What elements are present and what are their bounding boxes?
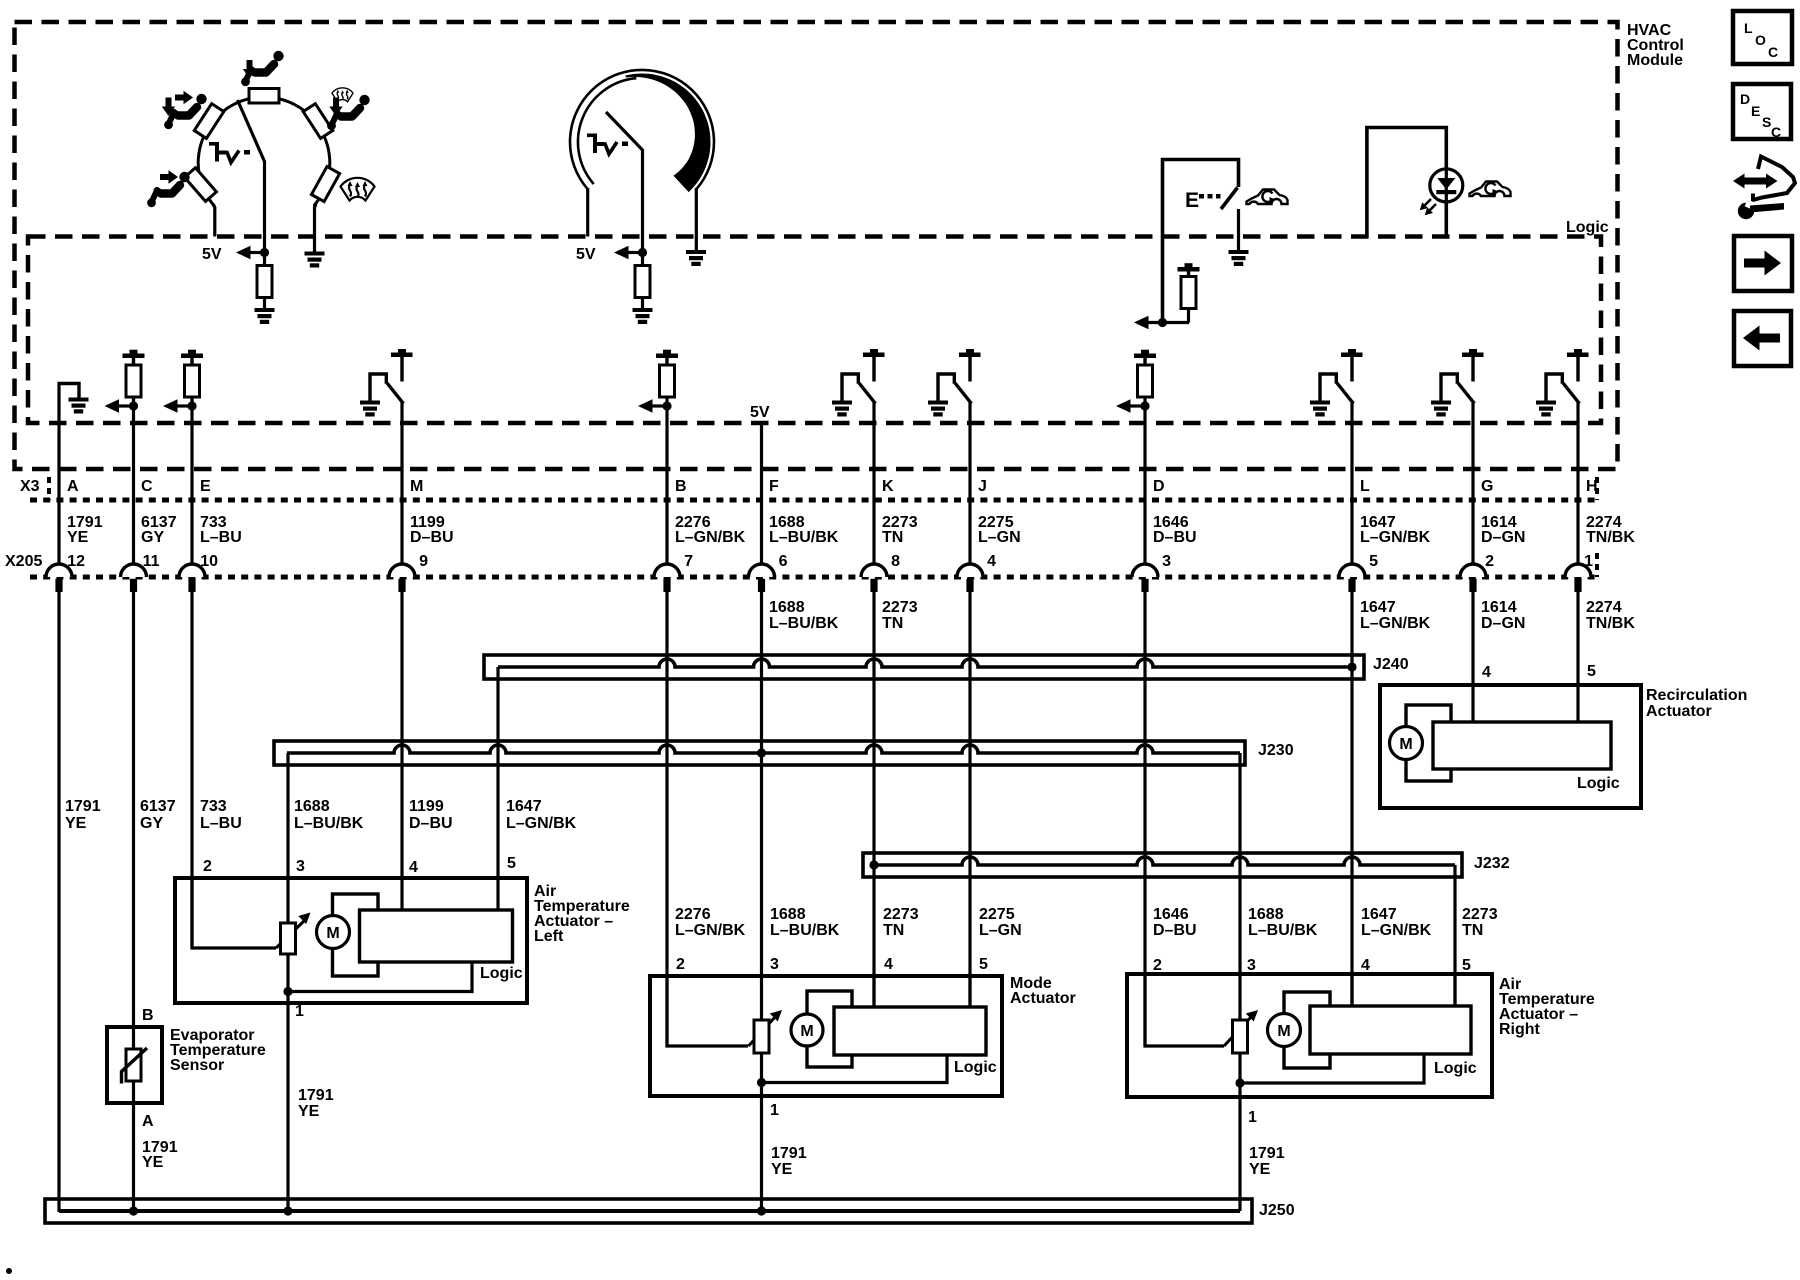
X205 connector bump pin 1 [1565, 564, 1591, 592]
splice bus J250 [45, 1199, 1252, 1223]
wire B 2276 L-GN/BK lower [665, 591, 668, 1046]
wire D 1646 D-BU lower [1143, 591, 1146, 1046]
X205 connector bump pin 12 [46, 564, 72, 592]
svg-text:1646: 1646 [1153, 906, 1189, 923]
wire 1647 branch from J240 to left actuator pin 5 [496, 667, 499, 911]
right actuator pot resistor [1233, 1020, 1248, 1053]
wire L 1647 L-GN/BK lower [1350, 591, 1353, 667]
svg-text:J240: J240 [1373, 656, 1409, 673]
svg-text:YE: YE [142, 1154, 164, 1171]
ground at wire A hook [69, 398, 89, 414]
svg-text:L–GN/BK: L–GN/BK [506, 815, 577, 832]
svg-text:2276: 2276 [675, 906, 711, 923]
svg-text:D: D [1740, 91, 1750, 107]
wire 1688 branch from J230 to right actuator pin 3 [1238, 753, 1241, 1021]
svg-text:2: 2 [1153, 957, 1162, 974]
svg-text:E: E [200, 478, 211, 495]
svg-text:C: C [141, 478, 153, 495]
left actuator 1791 YE label [298, 1087, 334, 1120]
svg-text:YE: YE [298, 1103, 320, 1120]
mode selector resistor lower-left [184, 168, 216, 202]
svg-text:11: 11 [143, 553, 160, 570]
svg-text:9: 9 [419, 553, 428, 570]
svg-text:D–BU: D–BU [409, 815, 453, 832]
wire H 2274 TN/BK [1576, 591, 1579, 724]
evap sensor thermistor [122, 1048, 148, 1084]
recirculation actuator pin labels [1482, 663, 1596, 681]
svg-text:TN: TN [883, 922, 904, 939]
mode selector resistor lower-right [311, 167, 339, 202]
mode icon defrost lower-right [341, 178, 375, 201]
mode actuator pot wiper arrow [749, 1010, 783, 1046]
svg-text:L–BU/BK: L–BU/BK [769, 529, 839, 546]
routing arrow and wrench icon [1733, 157, 1795, 220]
mode actuator pin1 junction dot [757, 1078, 766, 1087]
svg-text:TN/BK: TN/BK [1586, 529, 1635, 546]
connector X205 line [30, 553, 1597, 577]
recirculation actuator motor M [1390, 727, 1423, 760]
left actuator pot resistor [281, 923, 296, 954]
svg-text:1647: 1647 [1360, 599, 1396, 616]
svg-text:B: B [675, 478, 687, 495]
mode selector resistor top [249, 89, 279, 104]
wire 2273 branch from J232 to right actuator pin 5 [1453, 865, 1456, 1008]
svg-text:L–BU: L–BU [200, 529, 242, 546]
mode actuator 1791 YE label [771, 1145, 807, 1178]
svg-text:L–BU/BK: L–BU/BK [770, 922, 840, 939]
icon box right arrow [1734, 236, 1792, 291]
switch at wire K [832, 349, 885, 417]
wire labels below X205 [769, 599, 1635, 632]
right actuator logic to pin1 wire [1240, 1054, 1424, 1083]
svg-text:L–GN/BK: L–GN/BK [675, 529, 746, 546]
svg-text:2275: 2275 [979, 906, 1015, 923]
X205 connector bump pin 2 [1460, 564, 1486, 592]
svg-text:2273: 2273 [882, 599, 918, 616]
right actuator wire labels [1153, 906, 1498, 939]
right actuator pin5 internal wire [1453, 974, 1456, 1006]
right actuator pin2 internal wire [1145, 974, 1224, 1046]
mode icon person left with right arrow [147, 170, 190, 207]
svg-text:2: 2 [676, 956, 685, 973]
svg-text:2273: 2273 [1462, 906, 1498, 923]
svg-text:5: 5 [507, 855, 516, 872]
svg-text:2: 2 [1485, 553, 1494, 570]
svg-text:4: 4 [409, 859, 418, 876]
X205 connector bump pin 10 [179, 564, 205, 592]
temperature wiper resistor [635, 253, 650, 309]
right actuator pin4 internal wire [1350, 974, 1353, 1006]
wire C 6137 GY lower [132, 591, 135, 1049]
svg-text:S: S [1762, 114, 1771, 130]
svg-text:L: L [1744, 20, 1753, 36]
icon box LOC [1733, 11, 1792, 64]
svg-text:TN: TN [882, 615, 903, 632]
mode actuator logic to pin1 wire [762, 1055, 948, 1083]
mode actuator pin labels [676, 956, 988, 1119]
svg-text:8: 8 [891, 553, 900, 570]
svg-text:D–BU: D–BU [1153, 922, 1197, 939]
left actuator pot wiper arrow [276, 913, 311, 949]
temperature wiper junction dot [638, 248, 647, 257]
svg-text:1791: 1791 [298, 1087, 334, 1104]
connector X3 line [30, 477, 1597, 500]
wire J 2275 L-GN lower [968, 591, 971, 1008]
svg-text:TN: TN [882, 529, 903, 546]
svg-text:1791: 1791 [65, 798, 101, 815]
svg-text:YE: YE [65, 815, 87, 832]
mode actuator motor bracket [807, 991, 852, 1067]
svg-text:1688: 1688 [770, 906, 806, 923]
rear defog dashes [1199, 194, 1221, 199]
mode wiper junction dot [260, 248, 269, 257]
X3 pin letters [67, 478, 1598, 495]
svg-text:L–BU: L–BU [200, 815, 242, 832]
svg-text:YE: YE [771, 1161, 793, 1178]
X205 connector bump pin 7 [654, 564, 680, 592]
svg-text:D–GN: D–GN [1481, 529, 1525, 546]
wire left actuator pin 1 1791 YE [286, 953, 289, 1211]
svg-text:Logic: Logic [1566, 219, 1609, 236]
splice bus J230 [274, 741, 1245, 765]
svg-text:1647: 1647 [1361, 906, 1397, 923]
svg-text:733: 733 [200, 798, 227, 815]
svg-text:A: A [142, 1113, 154, 1130]
temperature dial thick crescent [625, 74, 710, 193]
Recirculation Actuator title [1646, 687, 1747, 720]
pull-up resistor at wire C [105, 350, 145, 413]
switch at wire G [1431, 349, 1484, 417]
svg-text:X3: X3 [20, 478, 40, 495]
svg-text:J232: J232 [1474, 855, 1510, 872]
right actuator pin labels [1153, 957, 1471, 1126]
mode selector right leg [315, 204, 317, 252]
mode wiper arrow [236, 246, 265, 260]
wire E 733 L-BU upper [190, 396, 193, 565]
svg-text:L–BU/BK: L–BU/BK [1248, 922, 1318, 939]
car icon at rear defog switch [1247, 190, 1288, 205]
mode actuator motor M [791, 1014, 823, 1046]
mode actuator pot resistor [754, 1020, 769, 1053]
wire F 1688 L-BU/BK upper [760, 421, 763, 565]
svg-text:X205: X205 [5, 553, 42, 570]
svg-text:Logic: Logic [954, 1059, 997, 1076]
Air Temperature Actuator Right box [1127, 974, 1492, 1097]
X205 connector bump pin 5 [1339, 564, 1365, 592]
pull-up resistor at wire E [163, 350, 203, 413]
rear defog node dot [1158, 318, 1167, 327]
Mode Actuator box [650, 976, 1002, 1096]
svg-text:5: 5 [1462, 957, 1471, 974]
left actuator motor bracket [333, 894, 379, 976]
svg-text:D–BU: D–BU [410, 529, 454, 546]
wire K 2273 TN lower [872, 591, 875, 1008]
wire labels above X205 [67, 514, 1635, 546]
svg-text:D–GN: D–GN [1481, 615, 1525, 632]
mode actuator pin5 internal wire [968, 976, 971, 1008]
rear defog pull-up resistor [1178, 263, 1200, 322]
X205 connector bump pin 8 [861, 564, 887, 592]
Logic inner dashed box [28, 237, 1601, 424]
svg-text:YE: YE [1249, 1161, 1271, 1178]
mode selector switch arc [198, 97, 330, 206]
mode selector wiper [238, 100, 265, 253]
recirculation indicator LED [1420, 169, 1463, 215]
mode selector left leg 5V [213, 204, 215, 237]
HVAC Control Module outer dashed box [15, 22, 1618, 469]
svg-text:M: M [1277, 1023, 1290, 1040]
wire K 2273 TN upper [872, 403, 875, 565]
wire M 1199 D-BU upper [400, 403, 403, 565]
evap sensor 1791 YE label [142, 1139, 178, 1171]
pull-up resistor at wire D [1116, 350, 1156, 413]
svg-text:Recirculation: Recirculation [1646, 687, 1747, 704]
Evaporator Temperature Sensor box [107, 1027, 162, 1103]
svg-text:GY: GY [141, 529, 164, 546]
svg-text:M: M [410, 478, 423, 495]
svg-text:1688: 1688 [1248, 906, 1284, 923]
left actuator pin1 junction dot [283, 987, 292, 996]
wire labels mid left column [65, 798, 577, 832]
svg-text:1: 1 [295, 1003, 304, 1020]
left actuator logic block [360, 910, 513, 962]
svg-text:B: B [142, 1007, 154, 1024]
X205 connector bump pin 4 [957, 564, 983, 592]
pull-up resistor at wire B [638, 350, 678, 413]
ground below temperature wiper resistor [633, 308, 653, 324]
svg-text:YE: YE [67, 529, 89, 546]
svg-text:Actuator: Actuator [1010, 990, 1076, 1007]
switch at wire H [1536, 349, 1589, 417]
svg-text:1647: 1647 [506, 798, 542, 815]
mode selector resistor upper-right [303, 104, 333, 139]
svg-text:L–BU/BK: L–BU/BK [294, 815, 364, 832]
svg-text:3: 3 [1247, 957, 1256, 974]
svg-text:3: 3 [770, 956, 779, 973]
svg-text:1791: 1791 [1249, 1145, 1285, 1162]
wire mode actuator pin 1 1791 YE [760, 1053, 763, 1211]
left actuator logic to pin1 wire [288, 962, 472, 992]
rear defog switch lower terminal [1237, 209, 1240, 250]
svg-text:4: 4 [1361, 957, 1370, 974]
svg-text:TN: TN [1462, 922, 1483, 939]
svg-text:6: 6 [779, 553, 788, 570]
mode icon person top with down arrow [241, 51, 284, 86]
svg-text:D: D [1153, 478, 1165, 495]
right actuator pin1 junction dot [1235, 1078, 1244, 1087]
svg-text:1: 1 [1248, 1109, 1257, 1126]
right actuator 1791 YE label [1249, 1145, 1285, 1178]
ground at mode selector right leg [305, 252, 325, 268]
svg-text:4: 4 [987, 553, 996, 570]
right actuator motor bracket [1284, 992, 1330, 1068]
svg-text:5V: 5V [202, 246, 222, 263]
left actuator pin2 internal wire [192, 878, 276, 948]
svg-text:3: 3 [1162, 553, 1171, 570]
svg-text:J250: J250 [1259, 1202, 1295, 1219]
recirculation LED wire below [1445, 200, 1449, 238]
ground at temperature dial right leg [686, 250, 706, 266]
temperature dial inner arc [578, 78, 636, 184]
right actuator logic block [1310, 1006, 1471, 1054]
svg-text:4: 4 [1482, 664, 1491, 681]
page corner dot [6, 1268, 12, 1274]
Air Temperature Actuator Left title [534, 883, 630, 945]
mode actuator wire labels [675, 906, 1022, 939]
recirculation LED loop [1367, 128, 1446, 239]
svg-text:Actuator: Actuator [1646, 703, 1712, 720]
temperature dial right leg [695, 188, 698, 250]
Evaporator Temperature Sensor title [170, 1027, 266, 1074]
icon box DESC [1733, 84, 1791, 140]
HVAC Control Module label [1627, 22, 1684, 69]
splice bus J232 [863, 853, 1462, 877]
Air Temperature Actuator Left box [175, 878, 527, 1003]
svg-text:E: E [1751, 103, 1760, 119]
svg-text:C: C [1771, 124, 1781, 140]
svg-text:L–GN/BK: L–GN/BK [1361, 922, 1432, 939]
mode icon person upper-right with defrost [327, 88, 370, 130]
svg-text:5: 5 [979, 956, 988, 973]
wire A hook to ground [58, 384, 80, 398]
svg-text:Logic: Logic [480, 965, 523, 982]
mode selector variable glyph [209, 142, 250, 163]
wire A 1791 YE lower [57, 591, 60, 1212]
svg-text:GY: GY [140, 815, 163, 832]
X205 connector bump pin 11 [121, 564, 147, 592]
svg-text:H: H [1586, 478, 1598, 495]
svg-text:C: C [1768, 44, 1778, 60]
svg-text:M: M [326, 925, 339, 942]
wire F 1688 L-BU/BK lower [760, 591, 763, 1021]
svg-text:E: E [1185, 189, 1199, 212]
svg-text:5: 5 [1369, 553, 1378, 570]
wire 1647 branch from J240 to right actuator pin 4 [1350, 667, 1353, 1008]
Air Temperature Actuator Right title [1499, 976, 1595, 1038]
svg-text:Right: Right [1499, 1021, 1541, 1038]
svg-text:5: 5 [1587, 663, 1596, 680]
Recirculation Actuator box [1380, 685, 1641, 808]
svg-text:K: K [882, 478, 894, 495]
svg-text:L–GN/BK: L–GN/BK [1360, 529, 1431, 546]
svg-text:L–GN/BK: L–GN/BK [675, 922, 746, 939]
svg-text:G: G [1481, 478, 1493, 495]
svg-text:4: 4 [884, 956, 893, 973]
svg-text:F: F [769, 478, 779, 495]
svg-text:L–GN: L–GN [979, 922, 1022, 939]
svg-text:1688: 1688 [294, 798, 330, 815]
wire J 2275 L-GN upper [968, 403, 971, 565]
svg-text:1199: 1199 [409, 798, 444, 815]
svg-text:7: 7 [684, 553, 693, 570]
temperature wiper arrow [614, 246, 643, 260]
svg-text:2: 2 [203, 858, 212, 875]
svg-text:Logic: Logic [1577, 775, 1620, 792]
mode actuator logic block [834, 1007, 986, 1055]
svg-text:M: M [800, 1023, 813, 1040]
ground at rear defog switch [1229, 250, 1249, 266]
icon box left arrow [1734, 311, 1791, 366]
svg-text:3: 3 [296, 858, 305, 875]
svg-text:5V: 5V [576, 246, 596, 263]
wire E 733 L-BU lower [190, 591, 193, 948]
wire G 1614 D-GN upper [1471, 403, 1474, 565]
wire L 1647 L-GN/BK upper [1350, 403, 1353, 565]
mode icon person upper-left with two arrows [162, 91, 207, 129]
svg-text:Sensor: Sensor [170, 1057, 224, 1074]
X205 connector bump pin 9 [389, 564, 415, 592]
car icon at recirculation LED [1470, 182, 1511, 197]
recirculation actuator logic block [1433, 722, 1611, 769]
svg-text:Module: Module [1627, 52, 1683, 69]
rear defog switch loop [1163, 160, 1239, 323]
svg-text:L–GN: L–GN [978, 529, 1021, 546]
switch at wire J [928, 349, 981, 417]
svg-text:TN/BK: TN/BK [1586, 615, 1635, 632]
left actuator pin labels [203, 855, 516, 1020]
wire evap sensor A 1791 YE [132, 1081, 135, 1211]
switch at wire L [1310, 349, 1363, 417]
wire H 2274 TN/BK upper [1576, 403, 1579, 565]
svg-text:1791: 1791 [771, 1145, 807, 1162]
svg-text:Left: Left [534, 928, 564, 945]
splice bus J240 [484, 655, 1364, 679]
svg-text:1: 1 [770, 1102, 779, 1119]
mode selector resistor upper-left [194, 104, 224, 139]
wire B 2276 L-GN/BK upper [665, 406, 668, 565]
svg-text:O: O [1755, 32, 1766, 48]
temperature dial outer arc [570, 70, 714, 189]
right actuator motor M [1268, 1014, 1301, 1047]
svg-text:L: L [1360, 478, 1370, 495]
switch at wire M [360, 349, 413, 417]
temperature dial wiper [606, 112, 643, 253]
right actuator pot wiper arrow [1224, 1010, 1258, 1046]
svg-text:J: J [978, 478, 987, 495]
X205 pin numbers [67, 553, 1593, 570]
svg-text:D–BU: D–BU [1153, 529, 1197, 546]
wire D 1646 D-BU upper [1143, 406, 1146, 565]
mode actuator pin2 internal wire [667, 976, 748, 1046]
svg-text:1688: 1688 [769, 599, 805, 616]
svg-text:L–GN/BK: L–GN/BK [1360, 615, 1431, 632]
svg-text:2273: 2273 [883, 906, 919, 923]
left actuator motor M [317, 916, 350, 949]
mode actuator pin4 internal wire [872, 976, 875, 1008]
svg-text:M: M [1399, 736, 1412, 753]
ground below mode wiper resistor [255, 308, 275, 324]
mode wiper resistor [257, 253, 272, 309]
svg-text:1614: 1614 [1481, 599, 1517, 616]
recirculation actuator motor bracket [1406, 705, 1451, 781]
wire A 1791 YE upper [57, 383, 60, 565]
svg-text:J230: J230 [1258, 742, 1294, 759]
svg-text:L–BU/BK: L–BU/BK [769, 615, 839, 632]
svg-text:5V: 5V [750, 404, 770, 421]
wire M 1199 D-BU lower [400, 591, 403, 911]
rear defog switch blade [1221, 188, 1238, 210]
wire right actuator pin 1 1791 YE [1238, 1052, 1241, 1211]
X205 connector bump pin 3 [1132, 564, 1158, 592]
X205 connector bump pin 6 [749, 564, 775, 592]
wire C 6137 GY upper [132, 396, 135, 565]
wire G 1614 D-GN [1471, 591, 1474, 724]
temperature dial left leg 5V [586, 188, 589, 237]
Mode Actuator title [1010, 975, 1076, 1007]
wire 1688 branch from J230 to left actuator pin 3 [286, 753, 289, 924]
temperature dial variable glyph [587, 134, 628, 155]
svg-text:A: A [67, 478, 79, 495]
